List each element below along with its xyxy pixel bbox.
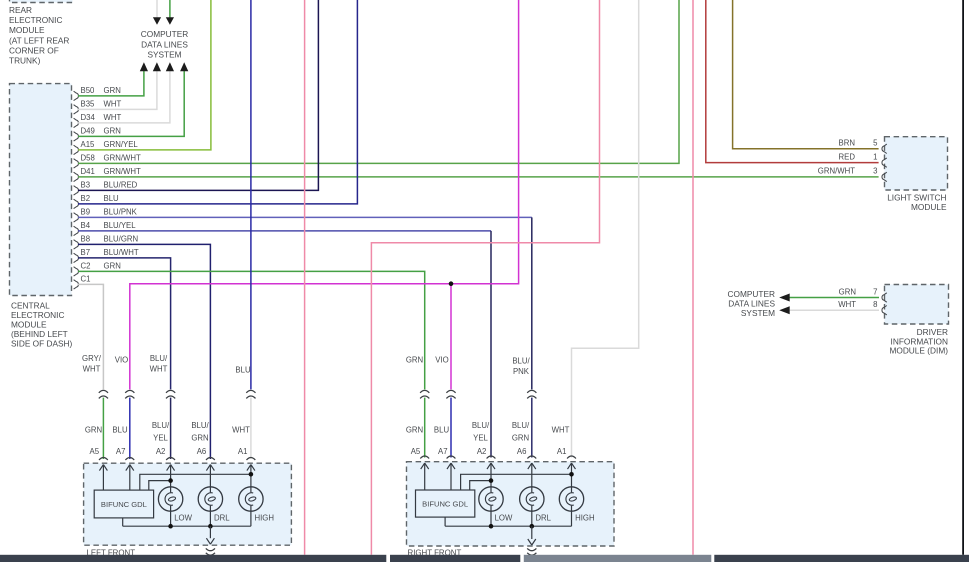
svg-text:BLU/RED: BLU/RED (104, 181, 138, 190)
wire B8 BLU/GRN to left lamp A6 (78, 244, 210, 459)
svg-text:B3: B3 (81, 181, 91, 190)
svg-text:1: 1 (873, 152, 877, 161)
right front headlamp assembly (box) (407, 462, 615, 546)
CEM pin B35 (WHT) (74, 100, 122, 115)
pin label A1 (left lamp) (238, 447, 248, 456)
wire left lamp link BIFUNC GDL to LOW wire (149, 481, 171, 491)
left lamp pin A7 entry arc (125, 458, 134, 461)
svg-text:GRN/WHT: GRN/WHT (818, 167, 855, 176)
svg-text:MODULE: MODULE (9, 25, 45, 35)
inline connector left lamp A7 (VIO to BLU) (125, 390, 134, 398)
CEM pin B9 (BLU/PNK) (74, 208, 138, 223)
bottom bar segment 2 (390, 555, 520, 562)
svg-text:BLU: BLU (235, 365, 251, 374)
wire C2 GRN to right lamp A5 connector (78, 271, 425, 389)
svg-text:LOW: LOW (495, 513, 513, 522)
CEM pin B4 (BLU/YEL) (74, 221, 137, 236)
CEM pin C2 (GRN) (74, 262, 121, 277)
CEM pin D41 (GRN/WHT) (74, 167, 141, 182)
light switch module pin 3 (GRN/WHT) (818, 167, 887, 182)
wire right lamp A5 feed into BIFUNC GDL (424, 463, 426, 490)
junction dot VIO branch (449, 281, 454, 286)
junction dot left lamp HIGH link (249, 472, 254, 477)
svg-text:BIFUNC GDL: BIFUNC GDL (422, 500, 468, 509)
wire right lamp A2 feed to LOW bulb (490, 463, 492, 487)
svg-text:GRN: GRN (104, 262, 121, 271)
CEM pin A15 (GRN/YEL) (74, 140, 139, 155)
svg-text:D58: D58 (81, 154, 95, 163)
svg-text:A6: A6 (517, 447, 527, 456)
inline connector right lamp A6 (BLU/PNK to BLU/GRN) (527, 390, 536, 398)
svg-text:GRN: GRN (406, 355, 423, 364)
bulb LOW (right lamp) (479, 487, 503, 511)
svg-text:7: 7 (873, 287, 877, 296)
svg-text:GRN: GRN (512, 433, 529, 442)
wire VIO branch to right lamp A7 connector (450, 284, 452, 390)
wire right lamp ground drop (531, 526, 533, 539)
svg-text:A15: A15 (81, 140, 96, 149)
svg-text:A5: A5 (90, 447, 100, 456)
svg-text:YEL: YEL (473, 433, 488, 442)
label LOW (right lamp) (495, 513, 513, 522)
right lamp pin A6 entry arc (527, 456, 536, 459)
svg-text:B4: B4 (81, 221, 91, 230)
label DRL (left lamp) (214, 513, 230, 522)
wire D34 WHT to data lines (78, 71, 170, 123)
node: COMPUTER DATA LINES SYSTEM (top) (141, 29, 189, 60)
svg-text:A7: A7 (116, 447, 126, 456)
label GRN (right lamp A5 upper) (406, 355, 423, 364)
DIM pin 8 (WHT) (838, 300, 887, 315)
driver information module (box) (885, 285, 949, 325)
bottom bar segment 4 (714, 555, 969, 562)
svg-text:MODULE: MODULE (11, 320, 47, 330)
svg-text:D34: D34 (81, 113, 96, 122)
svg-text:GRN/YEL: GRN/YEL (104, 140, 139, 149)
svg-text:GRN: GRN (191, 433, 208, 442)
CEM pin D34 (WHT) (74, 113, 122, 128)
wire BLU below connector to right lamp A7 (450, 398, 452, 458)
wire right lamp DRL bulb to ground bus (531, 511, 533, 526)
wire left lamp A5 feed into BIFUNC GDL (102, 465, 104, 491)
svg-text:A6: A6 (197, 447, 207, 456)
CEM pin D58 (GRN/WHT) (74, 154, 141, 169)
wire left lamp A7 feed into BIFUNC GDL (129, 465, 131, 491)
svg-text:CORNER OF: CORNER OF (9, 45, 59, 55)
inline connector right lamp A7 (VIO to BLU) (446, 390, 455, 398)
light switch module (box) (885, 137, 948, 190)
wire left lamp A1 feed to HIGH bulb (250, 465, 252, 487)
label BLU/YEL (right lamp lower) (472, 421, 490, 443)
svg-text:A7: A7 (438, 447, 448, 456)
svg-text:DATA LINES: DATA LINES (141, 39, 188, 49)
svg-text:BLU/: BLU/ (512, 357, 530, 366)
label HIGH (right lamp) (575, 513, 595, 522)
svg-text:BLU/GRN: BLU/GRN (104, 235, 139, 244)
pin label A7 (left lamp) (116, 447, 126, 456)
wire B35 WHT to data lines (78, 71, 157, 109)
wire right lamp link BIFUNC GDL to LOW wire (470, 481, 491, 490)
bottom bar segment 3 (light) (524, 555, 712, 562)
ground arrow (left lamp) (206, 538, 214, 544)
pin label A5 (left lamp) (90, 447, 100, 456)
arrow down (GRN into data lines) (166, 17, 174, 25)
label WHT (left lamp lower) (232, 425, 250, 434)
svg-text:HIGH: HIGH (575, 513, 595, 522)
svg-text:WHT: WHT (104, 113, 122, 122)
label: CENTRAL ELECTRONIC MODULE caption (11, 301, 73, 349)
svg-text:B35: B35 (81, 100, 96, 109)
wire GRN from top into computer data lines (169, 0, 171, 18)
label LEFT FRONT caption (87, 549, 136, 558)
wire left lamp HIGH bulb to ground bus (250, 511, 252, 526)
CEM pin B3 (BLU/RED) (74, 181, 138, 196)
svg-text:A1: A1 (557, 447, 567, 456)
label BLU (left lamp A1 upper) (235, 365, 251, 374)
left lamp pin A1 arrow (inside) (247, 465, 255, 471)
left lamp pin A2 entry arc (166, 458, 175, 461)
wire B7 BLU/WHT to left lamp A2 connector (78, 258, 171, 390)
node: COMPUTER DATA LINES SYSTEM (right, to DIM) (728, 289, 776, 318)
svg-text:SYSTEM: SYSTEM (741, 308, 775, 318)
svg-text:GRN: GRN (104, 86, 121, 95)
CEM pin D49 (GRN) (74, 127, 121, 142)
svg-text:C2: C2 (81, 262, 91, 271)
bulb DRL (right lamp) (520, 487, 544, 511)
svg-text:GRN: GRN (406, 425, 423, 434)
wire D58 GRN/WHT to top (78, 0, 679, 163)
svg-text:BIFUNC GDL: BIFUNC GDL (101, 500, 147, 509)
arrow up (B50 GRN) (140, 62, 148, 71)
left lamp pin A1 entry arc (247, 458, 256, 461)
svg-text:LIGHT SWITCH: LIGHT SWITCH (887, 192, 946, 202)
inline connector left lamp A2 (BLU/WHT to BLU/YEL) (166, 390, 175, 398)
svg-text:B8: B8 (81, 235, 91, 244)
right lamp pin A2 arrow (inside) (487, 463, 495, 469)
wire WHT below connector to left lamp A1 (250, 398, 252, 459)
svg-text:8: 8 (873, 300, 877, 309)
wire left lamp link BIFUNC GDL to HIGH wire (140, 474, 251, 490)
junction dot left lamp LOW link (168, 478, 173, 483)
label GRN (left lamp lower) (85, 425, 102, 434)
label LOW (left lamp) (174, 513, 192, 522)
wire WHT from top to right lamp A1 (572, 0, 639, 458)
wire right lamp LOW bulb to ground bus (490, 511, 492, 526)
svg-text:LOW: LOW (174, 513, 192, 522)
wire BLU from top to left lamp A1 connector (250, 0, 252, 389)
label BLU/GRN (right lamp lower) (512, 421, 530, 443)
label VIO (left lamp A7 upper) (115, 356, 128, 365)
arrow left (DIM GRN) (779, 294, 790, 302)
svg-text:WHT: WHT (83, 365, 101, 374)
svg-text:WHT: WHT (552, 425, 570, 434)
pin label A2 (right lamp) (477, 447, 487, 456)
CEM pin B7 (BLU/WHT) (74, 248, 139, 263)
DIM pin 7 (GRN) (839, 287, 887, 302)
wire PNK vertical (right) from top to bottom (692, 0, 694, 555)
wire RED to light switch pin 1 (706, 0, 879, 163)
label RIGHT FRONT caption (408, 549, 462, 558)
svg-text:BLU/PNK: BLU/PNK (104, 208, 138, 217)
svg-text:(BEHIND LEFT: (BEHIND LEFT (11, 329, 68, 339)
right lamp pin A5 arrow (inside) (421, 463, 429, 469)
svg-text:A2: A2 (156, 447, 166, 456)
wire right lamp ground bus (445, 525, 571, 527)
pin label A6 (left lamp) (197, 447, 207, 456)
label WHT (right lamp lower) (552, 425, 570, 434)
pin label A5 (right lamp) (411, 447, 421, 456)
svg-text:B7: B7 (81, 248, 91, 257)
wire left lamp A6 feed to DRL bulb (209, 465, 211, 487)
svg-text:D41: D41 (81, 167, 95, 176)
svg-text:DRL: DRL (535, 513, 551, 522)
svg-text:BLU/YEL: BLU/YEL (104, 221, 137, 230)
svg-text:GRY/: GRY/ (82, 354, 102, 363)
svg-text:ELECTRONIC: ELECTRONIC (11, 310, 64, 320)
inline connector left lamp A1 (BLU to WHT) (246, 390, 255, 398)
left lamp pin A7 arrow (inside) (126, 465, 134, 471)
wire left lamp LOW bulb to ground bus (170, 511, 172, 526)
svg-text:(AT LEFT REAR: (AT LEFT REAR (9, 35, 69, 45)
svg-text:VIO: VIO (115, 356, 128, 365)
label BLU/WHT (left lamp A2 upper) (150, 354, 168, 373)
wire WHT from top into computer data lines (156, 0, 158, 18)
svg-text:YEL: YEL (153, 433, 168, 442)
central electronic module (connector box) (10, 84, 72, 296)
svg-text:REAR: REAR (9, 5, 32, 15)
svg-text:COMPUTER: COMPUTER (141, 29, 188, 39)
svg-text:C1: C1 (81, 275, 91, 284)
pin label A2 (left lamp) (156, 447, 166, 456)
label HIGH (left lamp) (255, 513, 275, 522)
left lamp pin A5 arrow (inside) (99, 465, 107, 471)
wire B9 BLU/PNK to right lamp A6 (horizontal run) (78, 216, 532, 218)
label BLU/GRN (left lamp lower) (191, 421, 209, 443)
svg-text:ELECTRONIC: ELECTRONIC (9, 15, 62, 25)
svg-text:WHT: WHT (104, 100, 122, 109)
svg-text:GRN/WHT: GRN/WHT (104, 167, 141, 176)
svg-text:SYSTEM: SYSTEM (147, 50, 181, 60)
svg-text:WHT: WHT (150, 365, 168, 374)
wire BRN to light switch pin 5 (733, 0, 879, 149)
svg-text:BLU/WHT: BLU/WHT (104, 248, 139, 257)
wire A15 GRN/YEL to top (78, 0, 211, 150)
label GRN (right lamp lower) (406, 425, 423, 434)
left lamp pin A6 arrow (inside) (206, 465, 214, 471)
junction dot left lamp bus DRL (208, 524, 213, 529)
wire C1 GRY/WHT to left lamp A5 connector (78, 284, 103, 389)
light switch module pin 1 (RED) (839, 152, 887, 167)
wire D49 GRN to data lines (78, 71, 184, 136)
wire BLU below connector to left lamp A7 (129, 398, 131, 459)
arrow left (DIM WHT) (779, 306, 790, 314)
wire B2 BLU to top (78, 0, 357, 204)
wire left lamp A2 feed to LOW bulb (170, 465, 172, 487)
wire D41 GRN/WHT to light switch pin 3 (78, 176, 879, 178)
wire PNK from top bending left then down to bottom (371, 0, 599, 555)
junction dot right lamp bus DRL (530, 524, 535, 529)
wire PNK vertical (left of lamps) from top to bottom (304, 0, 306, 555)
wire left lamp DRL bulb to ground bus (209, 511, 211, 526)
wire right lamp BIFUNC GDL to ground bus (444, 517, 446, 526)
svg-text:5: 5 (873, 139, 878, 148)
label BLU/YEL (left lamp lower) (152, 421, 170, 443)
inline connector right lamp A5 (GRN to GRN) (420, 390, 429, 398)
svg-text:BLU/: BLU/ (152, 421, 170, 430)
wire GRN below connector to left lamp A5 (102, 398, 104, 459)
ground inline connector (left lamp) (206, 548, 215, 555)
bulb LOW (left lamp) (158, 487, 182, 511)
pin label A6 (right lamp) (517, 447, 527, 456)
bulb HIGH (right lamp) (559, 487, 583, 511)
wire right lamp HIGH bulb to ground bus (571, 511, 573, 526)
svg-text:BLU/: BLU/ (472, 421, 490, 430)
bulb HIGH (left lamp) (239, 487, 263, 511)
svg-text:3: 3 (873, 167, 877, 176)
diagram right border line (962, 0, 964, 555)
label: REAR ELECTRONIC MODULE caption (9, 5, 69, 66)
CEM pin B50 (GRN) (74, 86, 121, 101)
arrow up (D34 WHT) (166, 62, 174, 71)
label VIO (right lamp A7 upper) (435, 355, 448, 364)
wire left lamp BIFUNC GDL to ground bus (122, 518, 124, 526)
svg-text:PNK: PNK (513, 367, 530, 376)
svg-text:GRN: GRN (839, 287, 856, 296)
svg-text:HIGH: HIGH (255, 513, 275, 522)
light switch module pin 5 (BRN) (839, 139, 887, 154)
junction dot left lamp bus LOW (168, 524, 173, 529)
wire BLU/GRN below connector to right lamp A6 (531, 398, 533, 458)
svg-text:D49: D49 (81, 127, 95, 136)
right lamp pin A1 entry arc (567, 456, 576, 459)
label: DRIVER INFORMATION MODULE (DIM) caption (889, 327, 948, 356)
svg-text:BLU: BLU (112, 425, 128, 434)
arrow up (D49 GRN) (180, 62, 188, 71)
ground arrow (right lamp) (528, 539, 536, 545)
wire right lamp link BIFUNC GDL to HIGH wire (461, 474, 572, 490)
wire GRN from DIM pin 7 to computer data lines (790, 297, 880, 299)
wire B9 BLU/PNK vertical drop to right lamp A6 connector (531, 217, 533, 389)
right lamp pin A1 arrow (inside) (568, 463, 576, 469)
CEM pin C1 (no color label) (74, 275, 91, 290)
label DRL (right lamp) (535, 513, 551, 522)
arrow up (B35 WHT) (153, 62, 161, 71)
ground inline connector (right lamp) (527, 548, 536, 555)
junction dot right lamp LOW link (489, 478, 494, 483)
wire VIO from top to left lamp A7 connector (130, 0, 519, 389)
wire right lamp A6 feed to DRL bulb (531, 463, 533, 487)
svg-text:VIO: VIO (435, 355, 448, 364)
svg-text:RED: RED (839, 152, 856, 161)
svg-text:GRN/WHT: GRN/WHT (104, 154, 141, 163)
left lamp pin A5 entry arc (99, 458, 108, 461)
left front headlamp assembly (box) (84, 463, 292, 545)
svg-text:A2: A2 (477, 447, 487, 456)
svg-text:BLU: BLU (104, 194, 120, 203)
pin label A1 (right lamp) (557, 447, 567, 456)
label BLU/PNK (right lamp A6 upper) (512, 357, 530, 376)
svg-text:A1: A1 (238, 447, 248, 456)
svg-text:A5: A5 (411, 447, 421, 456)
arrow down (WHT into data lines) (153, 17, 161, 25)
wire BLU/YEL below connector to left lamp A2 (170, 398, 172, 459)
svg-text:WHT: WHT (838, 300, 856, 309)
wire B3 BLU/RED to top (78, 0, 318, 190)
wire left lamp ground bus (123, 525, 251, 527)
label GRY/WHT (left lamp A5 upper) (82, 354, 102, 373)
right lamp pin A7 entry arc (447, 456, 456, 459)
label BLU (left lamp lower) (112, 425, 128, 434)
wire right lamp A7 feed into BIFUNC GDL (450, 463, 452, 490)
svg-text:SIDE OF DASH): SIDE OF DASH) (11, 339, 73, 349)
wire WHT from DIM pin 8 to computer data lines (790, 309, 880, 311)
wire right lamp A1 feed to HIGH bulb (571, 463, 573, 487)
bottom bar segment 1 (0, 555, 386, 562)
svg-text:CENTRAL: CENTRAL (11, 301, 50, 311)
BIFUNC GDL module (right lamp) (416, 490, 475, 517)
svg-text:BLU/: BLU/ (512, 421, 530, 430)
svg-text:TRUNK): TRUNK) (9, 56, 41, 66)
svg-text:BRN: BRN (839, 139, 855, 148)
label BLU (right lamp lower) (434, 425, 450, 434)
right lamp pin A5 entry arc (420, 456, 429, 459)
CEM pin B8 (BLU/GRN) (74, 235, 139, 250)
svg-text:BLU: BLU (434, 425, 450, 434)
svg-text:WHT: WHT (232, 425, 250, 434)
right lamp pin A2 entry arc (487, 456, 496, 459)
wire B4 BLU/YEL vertical drop to right lamp A2 (490, 231, 492, 458)
svg-text:B9: B9 (81, 208, 91, 217)
svg-text:B50: B50 (81, 86, 96, 95)
pin label A7 (right lamp) (438, 447, 448, 456)
right lamp pin A7 arrow (inside) (447, 463, 455, 469)
junction dot right lamp HIGH link (569, 472, 574, 477)
wire GRN below connector to right lamp A5 (424, 398, 426, 458)
left lamp pin A6 entry arc (206, 458, 215, 461)
wire B4 BLU/YEL to right lamp A2 (horizontal run) (78, 230, 491, 232)
svg-text:BLU/: BLU/ (150, 354, 168, 363)
wire left lamp ground drop (209, 526, 211, 538)
svg-text:BLU/: BLU/ (191, 421, 209, 430)
inline connector left lamp A5 (GRY/WHT to GRN) (99, 390, 108, 398)
svg-text:B2: B2 (81, 194, 91, 203)
wire B50 GRN to data lines (78, 71, 144, 96)
svg-text:GRN: GRN (104, 127, 121, 136)
junction dot right lamp bus LOW (489, 524, 494, 529)
bulb DRL (left lamp) (198, 487, 222, 511)
svg-text:DRL: DRL (214, 513, 230, 522)
svg-text:MODULE (DIM): MODULE (DIM) (889, 346, 948, 356)
left lamp pin A2 arrow (inside) (167, 465, 175, 471)
BIFUNC GDL module (left lamp) (94, 490, 153, 518)
label: LIGHT SWITCH MODULE caption (887, 192, 947, 212)
rear electronic module (box, cut off at top) (10, 0, 73, 3)
svg-text:GRN: GRN (85, 425, 102, 434)
CEM pin B2 (BLU) (74, 194, 119, 209)
right lamp pin A6 arrow (inside) (528, 463, 536, 469)
svg-text:MODULE: MODULE (911, 202, 947, 212)
